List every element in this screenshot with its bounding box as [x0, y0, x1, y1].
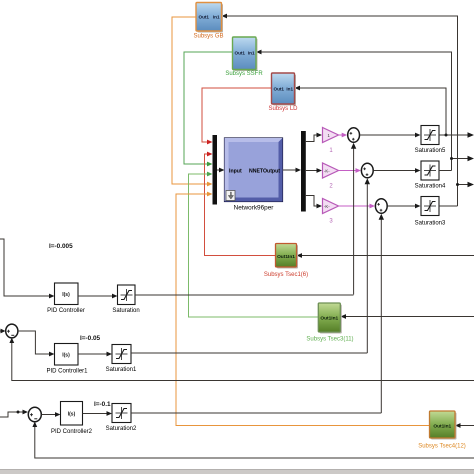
svg-text:In1: In1 — [248, 50, 255, 55]
subsystem block Subsys Tsec1 — [276, 244, 299, 269]
wire Saturation1 output to sum2 riser — [131, 352, 367, 354]
gain block 1 — [323, 128, 339, 143]
svg-text:-K-: -K- — [324, 204, 330, 209]
svg-text:In1: In1 — [286, 86, 293, 91]
wire Saturation1 output up to sum2 — [365, 178, 370, 353]
svg-text:Saturation5: Saturation5 — [415, 148, 446, 154]
wire PID Controller2 to Saturation2 — [83, 411, 113, 416]
svg-text:Input: Input — [229, 168, 242, 174]
svg-text:Out1In1: Out1In1 — [320, 316, 338, 322]
demux bar (network output) — [301, 131, 306, 212]
wire input row1 from left edge to PID Controller — [0, 239, 55, 298]
saturation block Saturation2 — [112, 404, 131, 423]
svg-text:I(s): I(s) — [68, 412, 76, 418]
wire demux port3 to gain 3 — [306, 196, 322, 209]
neural network block Network96per — [225, 138, 283, 202]
wire orange Subsys GB Out1 to mux input 5 — [172, 17, 213, 186]
saturation block Saturation5 — [421, 126, 439, 145]
svg-text:Saturation4: Saturation4 — [415, 184, 446, 190]
subsystem block Subsys Tsec4 — [430, 411, 457, 440]
saturation block Saturation3 — [421, 197, 439, 216]
PID block PID Controller1 — [55, 344, 79, 366]
wire In1 feed of Subsys SSFR (from Saturation4) — [256, 50, 452, 171]
wire green Subsys Tsec3 Out1 to mux input 4 — [189, 172, 319, 317]
PID block PID Controller — [55, 283, 79, 305]
wire gain1 to sum1 (magenta) — [339, 133, 348, 138]
wire Saturation5 output to right edge and LD feed — [439, 132, 474, 138]
wire green Subsys SSFR Out1 to mux input 3 — [184, 52, 233, 166]
svg-text:Network96per: Network96per — [234, 205, 275, 212]
wire orange Subsys Tsec4 Out1 to mux input 6 — [176, 192, 430, 426]
svg-text:Subsys Tsec3(11): Subsys Tsec3(11) — [306, 337, 353, 343]
wire Saturation2 output to sum3 riser — [131, 412, 381, 414]
svg-text:Subsys GB: Subsys GB — [193, 34, 223, 40]
svg-text:I=-0.05: I=-0.05 — [80, 335, 101, 342]
svg-text:Saturation1: Saturation1 — [106, 367, 137, 373]
wire red Subsys Tsec1 Out1 to mux input 2 — [205, 152, 276, 256]
svg-text:Out1: Out1 — [199, 14, 210, 19]
wire In1 feed of Subsys GB (from Saturation3 via top) — [222, 14, 458, 206]
sum block 1 — [348, 128, 360, 143]
gain block 2 — [323, 163, 339, 178]
svg-text:Saturation3: Saturation3 — [415, 221, 446, 227]
wire In1 feed of Subsys Tsec3 from right edge — [341, 314, 474, 319]
wire In1 feed of Subsys Tsec1 from right edge — [297, 253, 474, 258]
svg-text:I(s): I(s) — [62, 292, 70, 298]
svg-text:Subsys SSFR: Subsys SSFR — [225, 71, 263, 77]
PID block PID Controller2 — [61, 402, 83, 426]
saturation block Saturation (row1) — [118, 285, 136, 305]
svg-text:Subsys Tsec4(12): Subsys Tsec4(12) — [418, 444, 466, 450]
wire PID Controller1 to Saturation1 — [78, 352, 112, 357]
svg-text:-K-: -K- — [324, 169, 330, 174]
svg-text:Subsys Tsec1(6): Subsys Tsec1(6) — [264, 272, 308, 278]
svg-text:Subsys LD: Subsys LD — [268, 106, 298, 112]
wire In1 feed of Subsys Tsec4 from right edge — [455, 423, 474, 428]
wire mux to Network96per Input — [217, 168, 225, 173]
svg-text:PID Controller2: PID Controller2 — [51, 429, 93, 435]
svg-text:PID Controller1: PID Controller1 — [46, 369, 88, 375]
wire feedback row3 from right edge to sum bottom — [32, 422, 474, 459]
svg-text:I(s): I(s) — [62, 353, 70, 359]
wire input row2 from left edge to sum — [0, 329, 6, 334]
subsystem block Subsys Tsec3 — [318, 303, 342, 334]
wire Saturation2 output up to sum3 — [379, 214, 384, 413]
subsystem block Subsys LD — [272, 73, 297, 106]
wire Saturation3 output to vertical — [439, 182, 474, 206]
wire gain2 to sum2 (magenta) — [339, 168, 362, 173]
svg-text:Saturation: Saturation — [112, 308, 139, 314]
svg-text:In1: In1 — [213, 14, 220, 19]
wire sum row3 to PID Controller2 — [42, 412, 61, 417]
wire In1 feed of Subsys LD (from Saturation5) — [295, 86, 447, 135]
wire Network96per output to demux — [283, 168, 302, 173]
svg-text:I=-0.005: I=-0.005 — [49, 243, 73, 250]
svg-text:Saturation2: Saturation2 — [106, 426, 137, 432]
wire sum row2 to PID Controller1 — [18, 331, 54, 356]
mux bar (network input) — [213, 135, 218, 205]
wire input row3 from left edge to sum — [0, 410, 28, 417]
wire Saturation output row1 up to sum1 — [351, 143, 356, 295]
wire sum2 to Saturation4 — [374, 168, 421, 173]
svg-text:PID Controller: PID Controller — [47, 308, 85, 314]
saturation block Saturation1 — [112, 345, 131, 364]
wire gain3 to sum3 (magenta) — [339, 204, 376, 209]
wire demux port1 to gain 1 — [306, 133, 322, 142]
wire Saturation4 output to vertical — [439, 156, 474, 171]
svg-text:Out1: Out1 — [274, 86, 285, 91]
gain block 3 — [323, 199, 339, 214]
wire sum3 to Saturation3 — [388, 204, 421, 209]
sum block row3 (left) — [28, 407, 41, 421]
svg-text:I=-0.1: I=-0.1 — [94, 401, 111, 408]
svg-text:Out1In1: Out1In1 — [433, 424, 451, 430]
saturation block Saturation4 — [421, 161, 439, 180]
wire red Subsys LD Out1 to mux input 1 — [202, 88, 272, 144]
svg-text:NNETOutput: NNETOutput — [249, 168, 280, 174]
wire Saturation row1 output to sum1 riser — [135, 294, 354, 296]
wire PID Controller to Saturation — [78, 294, 118, 299]
sum block 2 — [361, 163, 373, 178]
sum block row2 (left) — [6, 324, 18, 338]
wire demux port2 to gain 2 — [306, 168, 322, 173]
svg-text:Out1In1: Out1In1 — [277, 254, 295, 260]
subsystem block Subsys GB — [196, 3, 223, 33]
svg-text:Out1: Out1 — [235, 50, 246, 55]
wire sum1 to Saturation5 — [360, 133, 421, 138]
wire feedback row2 from right edge to sum bottom — [9, 338, 474, 381]
subsystem block Subsys SSFR — [233, 37, 258, 71]
sum block 3 — [375, 199, 387, 214]
bottom gray band — [0, 469, 474, 474]
